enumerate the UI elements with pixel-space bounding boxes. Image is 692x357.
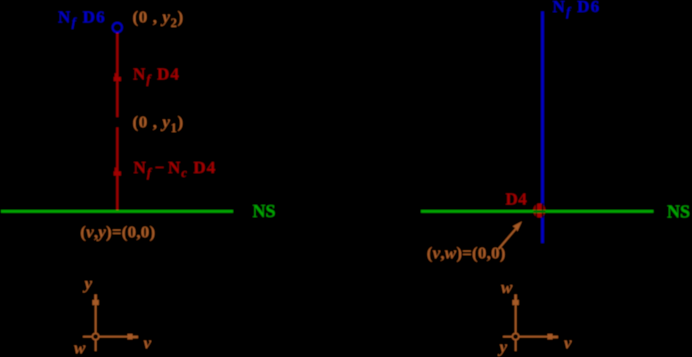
NS fivebrane line (right)	[421, 210, 653, 213]
svg-text:w: w	[74, 339, 86, 357]
right axes v-axis (horizontal with right arrow)	[503, 336, 551, 338]
NS fivebrane line (left)	[1, 210, 233, 213]
pointer arrow from origin label to dot	[499, 228, 517, 249]
svg-text:Nf D4: Nf D4	[133, 65, 180, 87]
label Nf D6 (right diagram)	[553, 0, 601, 19]
left axes y-axis (vertical with up arrow)	[95, 299, 97, 351]
left axes v-axis (horizontal with right arrow)	[83, 336, 131, 338]
right axes origin circle (y out of page)	[512, 333, 518, 339]
svg-text:NS: NS	[667, 201, 690, 221]
svg-text:v: v	[144, 334, 152, 353]
D4 brane dot at intersection	[533, 204, 545, 218]
label Nf - Nc D4	[134, 158, 217, 180]
label (0 , y1)	[133, 112, 184, 135]
svg-text:(v,w)=(0,0): (v,w)=(0,0)	[427, 244, 506, 263]
svg-text:y: y	[83, 274, 93, 293]
svg-text:y: y	[498, 338, 508, 357]
label (v,w)=(0,0)	[427, 244, 506, 263]
bright middle column of D4 dot	[538, 204, 542, 218]
label Nf D6 (left diagram)	[58, 7, 106, 29]
svg-text:Nf D6: Nf D6	[58, 7, 106, 29]
stripe gaps in D4 dot	[535, 203, 537, 218]
svg-text:Nf − Nc D4: Nf − Nc D4	[134, 158, 217, 180]
label (v,y)=(0,0)	[80, 223, 155, 242]
svg-text:D4: D4	[506, 190, 528, 209]
left axes origin circle (w out of page)	[92, 333, 98, 339]
svg-text:w: w	[501, 278, 513, 297]
right axes w-axis (vertical with up arrow)	[515, 299, 517, 351]
dimmed green where NS line crosses the D4 dot	[533, 210, 545, 213]
svg-text:(v,y)=(0,0): (v,y)=(0,0)	[80, 223, 155, 242]
D4 segment lower (y1 to NS)	[116, 128, 118, 212]
svg-text:v: v	[564, 334, 572, 353]
arrowhead on lower D4 segment	[114, 168, 121, 176]
arrowhead on upper D4 segment	[114, 73, 121, 81]
label (0 , y2)	[133, 7, 184, 30]
D6 brane endpoint circle (0,y2)	[113, 23, 122, 32]
D4 segment upper (y2 to y1)	[116, 33, 118, 117]
D6 brane vertical line (right)	[541, 12, 544, 244]
label Nf D4	[133, 65, 180, 87]
svg-text:NS: NS	[253, 201, 276, 221]
